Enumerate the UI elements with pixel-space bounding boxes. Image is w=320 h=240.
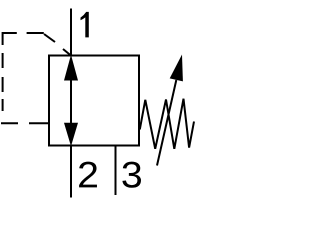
wire port 3 line [115,146,117,196]
flow path arrowhead down [64,123,78,147]
pilot line top horizontal dash b [27,32,44,34]
label port 2 [79,162,97,188]
pilot line diagonal dash b [63,49,72,56]
adjustment arrowhead [170,55,183,82]
label port 3 [122,162,141,188]
pilot line bottom horizontal dash b [29,122,49,124]
pilot line left vertical dash c [2,77,4,92]
pilot line left vertical dash a [2,32,4,45]
flow path arrow shaft [70,78,72,125]
pilot line left vertical dash d [2,99,4,111]
adjustment arrow shaft [157,80,176,166]
label port 1 [81,12,89,38]
pilot line diagonal dash a [44,34,55,42]
flow path arrowhead up [64,55,78,81]
spring [140,99,194,149]
pilot line left vertical dash b [2,53,4,68]
wire port 2 line [70,146,72,198]
pilot line top horizontal dash a [3,32,17,34]
wire port 1 line [70,9,72,56]
pilot line bottom horizontal dash a [1,122,18,124]
valve envelope box [49,56,139,146]
